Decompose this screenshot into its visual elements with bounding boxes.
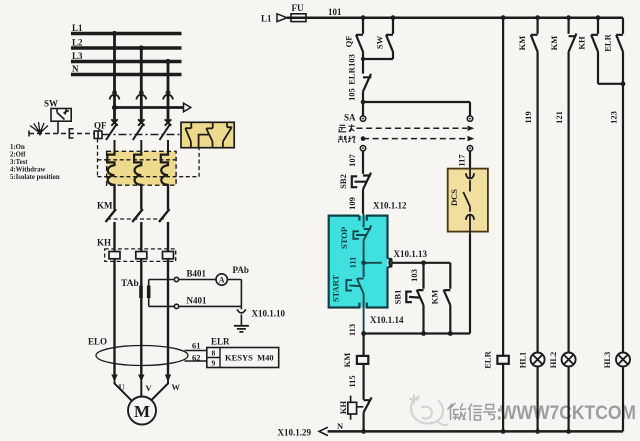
svg-text:111: 111: [348, 257, 358, 269]
svg-text:X10.1.12: X10.1.12: [373, 201, 407, 211]
svg-text:KH: KH: [338, 401, 348, 415]
svg-text:KM: KM: [342, 353, 352, 368]
svg-text:V: V: [146, 383, 153, 393]
svg-text:SW: SW: [44, 99, 58, 109]
svg-text:ELO: ELO: [88, 337, 107, 347]
svg-text:KH: KH: [577, 36, 587, 50]
svg-text:ELR: ELR: [483, 350, 493, 368]
svg-text:L3: L3: [72, 51, 83, 61]
svg-text:KH: KH: [97, 238, 111, 248]
svg-text:SA: SA: [344, 113, 356, 123]
svg-text:START: START: [330, 274, 340, 302]
svg-text:103: 103: [347, 54, 357, 67]
svg-text:L1: L1: [72, 23, 83, 33]
svg-text:PAb: PAb: [233, 265, 249, 275]
svg-text:KM: KM: [549, 36, 559, 51]
svg-text:62: 62: [192, 353, 201, 363]
svg-text:KM: KM: [97, 201, 113, 211]
svg-text:N: N: [72, 64, 79, 74]
svg-text:113: 113: [347, 324, 357, 336]
svg-text:109: 109: [347, 197, 357, 210]
svg-text:QF: QF: [94, 121, 107, 131]
svg-text:DCS: DCS: [449, 189, 459, 206]
svg-text:X10.1.10: X10.1.10: [252, 309, 286, 319]
svg-text:STOP: STOP: [339, 227, 349, 249]
svg-text:N: N: [337, 421, 344, 431]
svg-text:TAb: TAb: [121, 279, 139, 289]
svg-text:101: 101: [328, 7, 342, 17]
svg-text:U: U: [119, 382, 125, 392]
svg-text:2:Off: 2:Off: [10, 152, 26, 159]
svg-text:SB1: SB1: [393, 290, 403, 305]
svg-text:SW: SW: [375, 35, 385, 49]
svg-text:HL1: HL1: [518, 352, 528, 369]
svg-text:117: 117: [456, 154, 466, 167]
svg-text:N401: N401: [187, 296, 207, 306]
svg-text:QF: QF: [344, 36, 354, 48]
svg-text:119: 119: [523, 111, 533, 123]
svg-text:5:Isolate position: 5:Isolate position: [10, 174, 60, 181]
svg-text:4:Withdraw: 4:Withdraw: [10, 167, 45, 174]
svg-text:3:Test: 3:Test: [10, 159, 28, 166]
svg-text:ELR: ELR: [211, 337, 230, 347]
svg-text:ELR: ELR: [347, 66, 357, 84]
svg-text:121: 121: [554, 111, 564, 124]
svg-text:B401: B401: [187, 269, 207, 279]
svg-text:FU: FU: [292, 3, 304, 13]
svg-text:M: M: [134, 402, 150, 421]
svg-text:KM: KM: [517, 36, 527, 51]
svg-text:W: W: [172, 382, 181, 392]
svg-text:A: A: [219, 276, 225, 285]
svg-text:L2: L2: [72, 38, 83, 48]
svg-text:SB2: SB2: [338, 174, 348, 189]
svg-text:X10.1.29: X10.1.29: [278, 428, 312, 438]
svg-text:105: 105: [347, 88, 357, 101]
svg-text:123: 123: [609, 111, 619, 124]
svg-text:8: 8: [212, 349, 216, 358]
svg-text:107: 107: [347, 153, 357, 167]
svg-text:103: 103: [409, 269, 419, 282]
svg-text:115: 115: [347, 375, 357, 387]
svg-text:KESYS M40: KESYS M40: [225, 353, 274, 363]
svg-text:1:On: 1:On: [10, 144, 25, 151]
svg-text:61: 61: [192, 341, 201, 351]
svg-text:ELR: ELR: [603, 33, 613, 51]
svg-text:L1: L1: [261, 14, 272, 24]
svg-text:X10.1.13: X10.1.13: [394, 249, 428, 259]
svg-text:X10.1.14: X10.1.14: [370, 315, 404, 325]
svg-text:HL3: HL3: [602, 352, 612, 369]
svg-text:9: 9: [212, 359, 216, 368]
svg-text:HL2: HL2: [548, 352, 558, 369]
svg-text:KM: KM: [430, 290, 440, 305]
